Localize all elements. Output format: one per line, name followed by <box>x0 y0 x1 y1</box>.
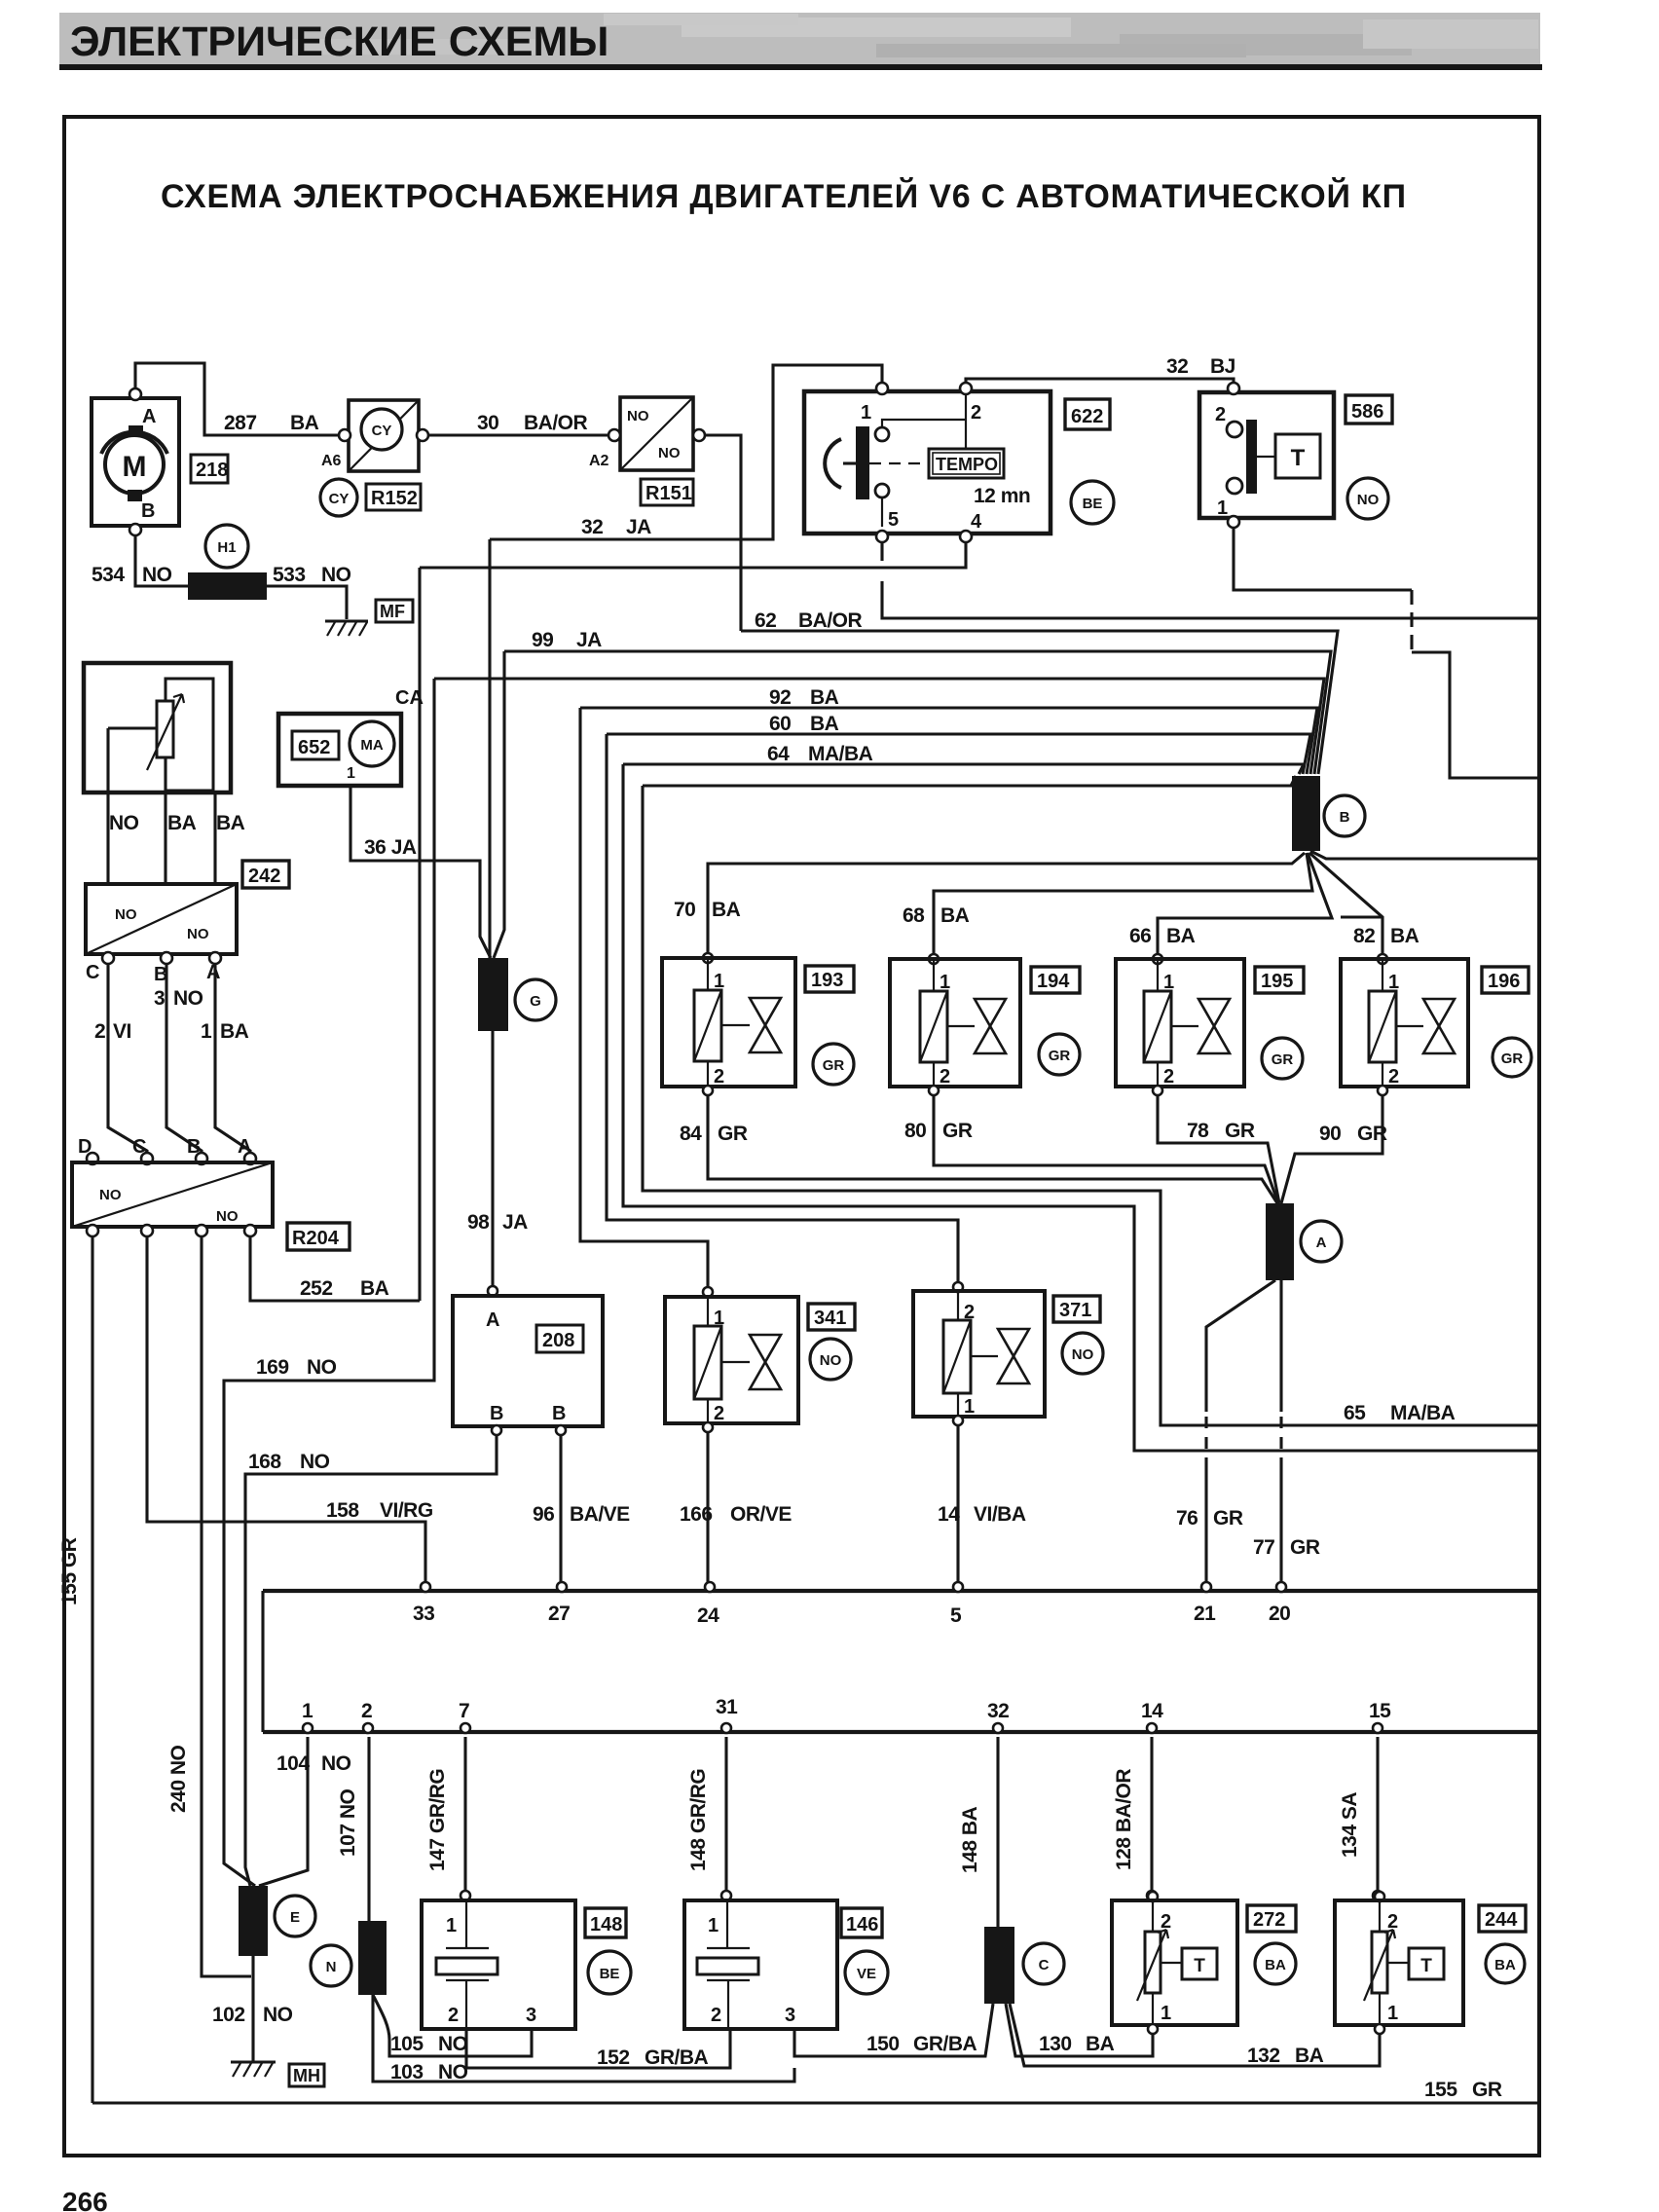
svg-text:A: A <box>486 1309 499 1331</box>
svg-text:244: 244 <box>1485 1909 1518 1931</box>
svg-text:NO: NO <box>300 1451 330 1473</box>
thermal switch 586 box <box>1199 392 1334 518</box>
svg-text:169: 169 <box>256 1356 289 1379</box>
wire from CA bundle y697 <box>434 679 1324 774</box>
coolant temp sensor 244 <box>1375 1892 1384 1901</box>
svg-text:R152: R152 <box>371 488 418 509</box>
relay coil <box>825 439 841 488</box>
svg-text:B: B <box>552 1403 566 1424</box>
svg-text:65: 65 <box>1344 1402 1366 1424</box>
relay pins 5 4 <box>881 498 883 527</box>
svg-text:BA: BA <box>810 686 839 709</box>
wire 534 NO <box>135 535 188 586</box>
wire to 65 MA/BA <box>643 776 1296 786</box>
svg-text:CY: CY <box>372 423 392 439</box>
svg-text:32: 32 <box>581 516 603 538</box>
svg-text:68: 68 <box>903 904 925 927</box>
svg-text:168: 168 <box>248 1451 281 1473</box>
svg-text:CY: CY <box>329 491 350 507</box>
svg-text:534: 534 <box>92 564 125 586</box>
svg-text:2: 2 <box>361 1700 372 1722</box>
svg-text:BA: BA <box>1295 2045 1324 2067</box>
svg-text:B: B <box>1340 809 1350 826</box>
svg-text:VI: VI <box>113 1020 131 1043</box>
label 218 <box>191 455 228 483</box>
wire 99 JA vertical to G <box>494 651 504 958</box>
wire 148 BA <box>996 1737 999 1927</box>
svg-text:MH: MH <box>293 2066 320 2085</box>
svg-text:96: 96 <box>533 1503 554 1526</box>
connector 242 box <box>86 884 237 954</box>
wire 107 NO <box>367 1737 370 1921</box>
svg-text:341: 341 <box>814 1308 846 1329</box>
svg-text:GR: GR <box>1213 1507 1243 1530</box>
wire 64 MA/BA <box>623 764 1304 774</box>
svg-text:3: 3 <box>526 2005 536 2026</box>
svg-text:NO: NO <box>99 1187 122 1203</box>
svg-text:BA: BA <box>360 1277 389 1300</box>
wire 96 BA/VE <box>559 1435 562 1586</box>
label R151 <box>641 479 693 505</box>
wire 78 GR <box>1153 1086 1162 1095</box>
svg-text:T: T <box>1291 445 1306 471</box>
connector R151 box <box>620 397 693 470</box>
svg-text:T: T <box>1194 1956 1205 1976</box>
header underline <box>59 64 1542 70</box>
wire 36 JA <box>350 786 491 958</box>
solenoid valve 194 <box>929 954 939 964</box>
svg-text:GR: GR <box>942 1120 973 1142</box>
wire 533 NO to ground <box>267 586 347 619</box>
svg-text:150: 150 <box>866 2033 900 2055</box>
wire 147 GR/RG <box>463 1737 466 1896</box>
svg-text:GR: GR <box>1225 1120 1255 1142</box>
svg-text:BA/OR: BA/OR <box>798 609 863 632</box>
svg-text:T: T <box>1420 1956 1432 1976</box>
svg-text:GR: GR <box>1472 2079 1502 2101</box>
svg-text:A: A <box>206 962 220 983</box>
svg-text:1: 1 <box>964 1396 975 1418</box>
svg-text:4: 4 <box>971 511 982 533</box>
svg-text:NO: NO <box>321 1752 351 1775</box>
svg-text:84: 84 <box>680 1123 702 1145</box>
svg-text:MA/BA: MA/BA <box>1390 1402 1456 1424</box>
wires 242 to R204 <box>108 964 147 1159</box>
wire 166 OR/VE <box>703 1422 713 1432</box>
ecu box 652 <box>278 714 401 786</box>
wire 102 NO to ground <box>251 1956 254 2062</box>
wire 155 GR bottom <box>92 2101 1539 2104</box>
wire R151 out to 62 BA/OR corner <box>705 435 741 631</box>
svg-text:BA: BA <box>1265 1957 1286 1973</box>
svg-text:BE: BE <box>1083 496 1103 512</box>
ecu box 208 <box>453 1296 603 1426</box>
svg-text:27: 27 <box>548 1603 570 1625</box>
wire 98 JA <box>491 1031 494 1291</box>
relay R152 (CY) box <box>349 400 419 471</box>
svg-text:NO: NO <box>627 408 649 424</box>
svg-text:77: 77 <box>1253 1536 1274 1559</box>
svg-text:218: 218 <box>196 460 228 481</box>
wire 152 GR/BA <box>466 2029 730 2068</box>
svg-text:BA: BA <box>940 904 970 927</box>
svg-text:2: 2 <box>714 1403 724 1424</box>
svg-text:92: 92 <box>769 686 791 709</box>
wire 32 JA vertical to G <box>488 539 491 958</box>
svg-text:VE: VE <box>857 1966 876 1982</box>
svg-text:NO: NO <box>307 1356 337 1379</box>
svg-text:NO: NO <box>438 2033 468 2055</box>
wire 82 BA <box>1309 853 1382 955</box>
svg-text:2: 2 <box>940 1066 950 1088</box>
wire 130 BA <box>1006 2004 1153 2056</box>
solenoid valve 371 <box>953 1282 963 1292</box>
svg-text:B: B <box>490 1403 503 1424</box>
svg-text:66: 66 <box>1129 925 1151 947</box>
svg-text:80: 80 <box>904 1120 926 1142</box>
svg-text:JA: JA <box>502 1211 528 1234</box>
svg-text:7: 7 <box>459 1700 469 1722</box>
connector C <box>984 1927 1014 2004</box>
wire 105 NO <box>373 1995 532 2056</box>
svg-text:GR: GR <box>1290 1536 1320 1559</box>
wire 92 BA <box>580 708 1317 774</box>
motor M symbol <box>105 435 164 494</box>
svg-text:533: 533 <box>273 564 306 586</box>
svg-text:MF: MF <box>380 602 405 621</box>
svg-text:JA: JA <box>576 629 602 651</box>
sensor wires NO BA BA <box>106 728 109 884</box>
svg-text:5: 5 <box>950 1604 962 1627</box>
svg-text:193: 193 <box>811 970 843 991</box>
knock sensor 148 <box>422 1900 575 2029</box>
svg-text:148 BA: 148 BA <box>959 1806 981 1873</box>
wire CA vertical <box>418 568 421 1301</box>
svg-text:C: C <box>132 1136 146 1158</box>
svg-text:GR/BA: GR/BA <box>913 2033 977 2055</box>
svg-text:102: 102 <box>212 2004 245 2026</box>
svg-text:M: M <box>123 451 147 483</box>
svg-text:148: 148 <box>590 1914 622 1935</box>
ground MH <box>231 2060 276 2063</box>
label 586 <box>1346 395 1392 424</box>
wire 103 NO <box>373 1995 794 2082</box>
svg-text:A: A <box>142 406 156 427</box>
coolant sensor box <box>84 663 231 793</box>
svg-text:GR: GR <box>1049 1048 1071 1064</box>
svg-text:266: 266 <box>62 2187 108 2212</box>
circle NO <box>1347 478 1388 519</box>
svg-text:VI/BA: VI/BA <box>974 1503 1026 1526</box>
svg-text:62: 62 <box>755 609 776 632</box>
svg-text:2: 2 <box>94 1020 105 1043</box>
wire 168 NO <box>245 1435 497 1886</box>
svg-text:33: 33 <box>413 1603 434 1625</box>
svg-text:CA: CA <box>395 687 424 709</box>
svg-text:NO: NO <box>263 2004 293 2026</box>
connector G <box>478 958 508 1031</box>
circle BE <box>1071 481 1114 524</box>
svg-text:146: 146 <box>846 1914 878 1935</box>
wire 76 GR <box>1206 1280 1275 1412</box>
svg-text:A2: A2 <box>589 453 609 469</box>
svg-text:BA/OR: BA/OR <box>524 412 588 434</box>
svg-text:105: 105 <box>390 2033 424 2055</box>
svg-text:NO: NO <box>820 1352 842 1369</box>
svg-text:24: 24 <box>697 1604 719 1627</box>
wire 80 GR <box>929 1086 939 1095</box>
svg-text:D: D <box>78 1136 92 1158</box>
wire 14 VI/BA <box>953 1416 963 1425</box>
svg-text:A: A <box>238 1136 251 1158</box>
ecu bus 1 <box>263 1589 1539 1593</box>
svg-text:B: B <box>141 500 155 522</box>
wire 84 GR <box>703 1086 713 1095</box>
svg-text:BA: BA <box>1166 925 1196 947</box>
svg-text:60: 60 <box>769 713 791 735</box>
svg-text:31: 31 <box>716 1696 738 1718</box>
svg-text:287: 287 <box>224 412 257 434</box>
svg-text:586: 586 <box>1351 401 1383 423</box>
svg-text:2: 2 <box>714 1066 724 1088</box>
wire 240 NO <box>202 1236 251 1976</box>
wire 99 JA horizontal <box>504 651 1331 774</box>
svg-text:GR: GR <box>718 1123 748 1145</box>
svg-text:2: 2 <box>711 2005 721 2026</box>
svg-text:BA: BA <box>167 812 197 834</box>
svg-text:VI/RG: VI/RG <box>380 1499 433 1522</box>
svg-text:NO: NO <box>1357 492 1380 508</box>
svg-text:104: 104 <box>276 1752 310 1775</box>
svg-text:1: 1 <box>708 1915 719 1936</box>
svg-text:OR/VE: OR/VE <box>730 1503 792 1526</box>
svg-text:GR/BA: GR/BA <box>645 2046 709 2069</box>
svg-text:NO: NO <box>187 926 209 942</box>
svg-text:BA/VE: BA/VE <box>570 1503 630 1526</box>
label CY R152 <box>320 479 357 516</box>
svg-text:NO: NO <box>658 445 681 461</box>
ground MF <box>325 619 368 622</box>
wire 586 pin1 hook to right border <box>1234 528 1412 590</box>
svg-text:3: 3 <box>154 987 165 1010</box>
svg-text:GR: GR <box>1501 1051 1524 1067</box>
svg-text:652: 652 <box>298 737 330 758</box>
svg-text:MA: MA <box>360 737 383 754</box>
svg-text:134 SA: 134 SA <box>1339 1792 1361 1858</box>
svg-text:BA: BA <box>290 412 319 434</box>
svg-text:A: A <box>1316 1235 1327 1251</box>
svg-text:R204: R204 <box>292 1228 340 1249</box>
wire 90 GR <box>1378 1086 1387 1095</box>
svg-text:32: 32 <box>1166 355 1188 378</box>
connector E <box>239 1886 268 1956</box>
svg-text:GR: GR <box>1272 1051 1294 1068</box>
connector N <box>358 1921 387 1995</box>
motor 218 box <box>92 398 179 526</box>
svg-text:СХЕМА ЭЛЕКТРОСНАБЖЕНИЯ ДВИГАТЕ: СХЕМА ЭЛЕКТРОСНАБЖЕНИЯ ДВИГАТЕЛЕЙ V6 С А… <box>161 177 1407 215</box>
svg-text:N: N <box>326 1959 337 1975</box>
wire 62 BA/OR <box>741 631 1338 774</box>
svg-text:208: 208 <box>542 1330 574 1351</box>
svg-text:NO: NO <box>173 987 203 1010</box>
svg-text:BJ: BJ <box>1210 355 1235 378</box>
svg-text:272: 272 <box>1253 1909 1285 1931</box>
svg-text:5: 5 <box>888 509 899 531</box>
svg-text:NO: NO <box>438 2061 468 2083</box>
svg-text:1: 1 <box>1387 2003 1398 2024</box>
svg-text:158: 158 <box>326 1499 359 1522</box>
svg-text:622: 622 <box>1071 406 1103 427</box>
svg-text:155 GR: 155 GR <box>58 1537 81 1605</box>
svg-text:2: 2 <box>448 2005 459 2026</box>
svg-text:252: 252 <box>300 1277 333 1300</box>
svg-text:1: 1 <box>302 1700 313 1722</box>
svg-text:82: 82 <box>1353 925 1375 947</box>
wire 134 SA <box>1376 1737 1379 1896</box>
svg-text:195: 195 <box>1261 971 1293 992</box>
header gray band <box>59 13 1540 66</box>
svg-text:BA: BA <box>712 899 741 921</box>
wire 169 NO <box>224 679 434 1886</box>
svg-text:H1: H1 <box>217 539 236 556</box>
svg-text:36 JA: 36 JA <box>364 836 417 859</box>
connector R204 box <box>87 1153 98 1164</box>
label 622 <box>1065 399 1110 429</box>
svg-text:1: 1 <box>201 1020 212 1043</box>
wire 150 GR/BA <box>794 2004 993 2056</box>
svg-text:32: 32 <box>987 1700 1009 1722</box>
svg-text:A6: A6 <box>321 453 342 469</box>
svg-text:107 NO: 107 NO <box>337 1788 359 1857</box>
svg-text:166: 166 <box>680 1503 713 1526</box>
svg-text:3: 3 <box>785 2005 795 2026</box>
ecu bus 2 <box>263 1730 1539 1734</box>
svg-text:147 GR/RG: 147 GR/RG <box>426 1769 449 1871</box>
svg-text:152: 152 <box>597 2046 630 2069</box>
svg-text:C: C <box>86 962 99 983</box>
svg-text:20: 20 <box>1269 1603 1290 1625</box>
connector A <box>1266 1203 1294 1280</box>
svg-text:155: 155 <box>1424 2079 1457 2101</box>
svg-text:90: 90 <box>1319 1123 1341 1145</box>
svg-text:196: 196 <box>1488 971 1520 992</box>
svg-text:NO: NO <box>216 1208 239 1225</box>
motor pin B <box>128 490 142 501</box>
wire B to right border <box>1310 851 1539 859</box>
svg-text:371: 371 <box>1059 1300 1091 1321</box>
svg-text:78: 78 <box>1187 1120 1209 1142</box>
svg-text:30: 30 <box>477 412 498 434</box>
wire 68 BA <box>934 853 1312 955</box>
svg-text:C: C <box>1039 1957 1050 1973</box>
wire 32 BJ <box>966 379 1234 387</box>
wire 155 GR left <box>91 1236 93 2103</box>
wire 32 JA <box>490 365 882 539</box>
svg-text:148 GR/RG: 148 GR/RG <box>687 1769 710 1871</box>
svg-text:1: 1 <box>1161 2003 1171 2024</box>
wire 128 BA/OR <box>1150 1737 1153 1896</box>
motor pin A <box>129 425 143 437</box>
wire 30 BA/OR <box>428 433 608 436</box>
coolant temp sensor 272 <box>1148 1892 1158 1901</box>
svg-text:2: 2 <box>1388 1066 1399 1088</box>
svg-text:BA: BA <box>810 713 839 735</box>
svg-text:NO: NO <box>109 812 139 834</box>
svg-text:NO: NO <box>321 564 351 586</box>
svg-text:1: 1 <box>861 402 871 424</box>
wire 132 BA <box>1010 2004 1380 2066</box>
svg-text:JA: JA <box>626 516 651 538</box>
svg-text:15: 15 <box>1369 1700 1391 1722</box>
solenoid valve 341 <box>703 1287 713 1297</box>
svg-text:132: 132 <box>1247 2045 1280 2067</box>
svg-text:130: 130 <box>1039 2033 1072 2055</box>
relay 622 box <box>804 391 1051 534</box>
wire 148 GR/RG <box>724 1737 727 1896</box>
svg-text:R151: R151 <box>645 483 692 504</box>
wire 158 VI/RG <box>147 1236 425 1586</box>
svg-text:NO: NO <box>142 564 172 586</box>
svg-text:1: 1 <box>1217 498 1228 519</box>
svg-text:128 BA/OR: 128 BA/OR <box>1113 1769 1135 1870</box>
svg-text:G: G <box>530 993 541 1010</box>
resistor H1 <box>205 525 248 568</box>
svg-text:NO: NO <box>115 906 137 923</box>
svg-text:98: 98 <box>467 1211 490 1234</box>
solenoid valve 193 <box>703 953 713 963</box>
svg-text:1: 1 <box>347 765 355 782</box>
svg-text:21: 21 <box>1194 1603 1216 1625</box>
svg-text:BA: BA <box>1390 925 1419 947</box>
wire 66 BA <box>1158 853 1332 955</box>
svg-text:B: B <box>187 1136 201 1158</box>
wire 252 BA <box>250 1236 420 1301</box>
svg-text:ЭЛЕКТРИЧЕСКИЕ СХЕМЫ: ЭЛЕКТРИЧЕСКИЕ СХЕМЫ <box>70 18 608 65</box>
wire 60 BA <box>607 734 1310 774</box>
svg-text:NO: NO <box>1072 1346 1094 1363</box>
knock sensor 146 <box>684 1900 837 2029</box>
svg-text:TEMPO: TEMPO <box>936 455 998 474</box>
connector B <box>1292 776 1320 851</box>
svg-text:BA: BA <box>220 1020 249 1043</box>
svg-text:99: 99 <box>532 629 553 651</box>
wire relay pin5 to right border <box>882 542 1539 618</box>
svg-text:BA: BA <box>216 812 245 834</box>
svg-text:BA: BA <box>1086 2033 1115 2055</box>
solenoid valve 196 <box>1378 954 1387 964</box>
solenoid valve 195 <box>1153 954 1162 964</box>
svg-text:76: 76 <box>1176 1507 1198 1530</box>
svg-text:E: E <box>290 1909 300 1926</box>
svg-text:194: 194 <box>1037 971 1070 992</box>
svg-text:GR: GR <box>823 1057 845 1074</box>
TEMPO timer <box>929 449 1004 478</box>
svg-text:240 NO: 240 NO <box>167 1745 190 1813</box>
svg-text:14: 14 <box>1141 1700 1163 1722</box>
wire 104 NO <box>259 1737 308 1886</box>
svg-text:70: 70 <box>674 899 695 921</box>
wire 70 BA <box>708 853 1305 954</box>
svg-text:242: 242 <box>248 866 280 887</box>
svg-text:1: 1 <box>446 1915 457 1936</box>
svg-text:BA: BA <box>1494 1957 1516 1973</box>
svg-text:2: 2 <box>971 402 981 424</box>
svg-text:64: 64 <box>767 743 790 765</box>
wire 77 GR <box>1279 1280 1282 1412</box>
svg-text:2: 2 <box>1163 1066 1174 1088</box>
wire relay pin4 to CA <box>420 542 966 568</box>
svg-text:14: 14 <box>938 1503 960 1526</box>
